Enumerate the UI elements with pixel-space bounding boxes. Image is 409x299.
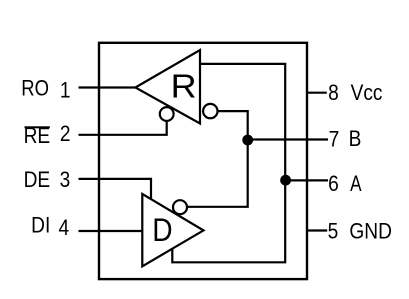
svg-text:RO: RO [21,77,49,101]
svg-text:D: D [152,214,172,249]
svg-text:3: 3 [60,168,71,193]
svg-text:R: R [171,69,197,105]
svg-text:8: 8 [328,81,339,106]
svg-text:2: 2 [60,122,71,147]
svg-text:Vcc: Vcc [351,81,383,106]
svg-text:6: 6 [328,172,339,197]
svg-text:7: 7 [329,127,340,152]
svg-text:DI: DI [31,213,50,238]
svg-text:1: 1 [60,78,71,103]
svg-text:4: 4 [58,216,69,241]
svg-text:5: 5 [328,219,339,244]
svg-text:A: A [350,172,362,197]
svg-text:B: B [349,127,362,152]
svg-text:GND: GND [349,219,392,244]
svg-text:DE: DE [24,168,51,193]
